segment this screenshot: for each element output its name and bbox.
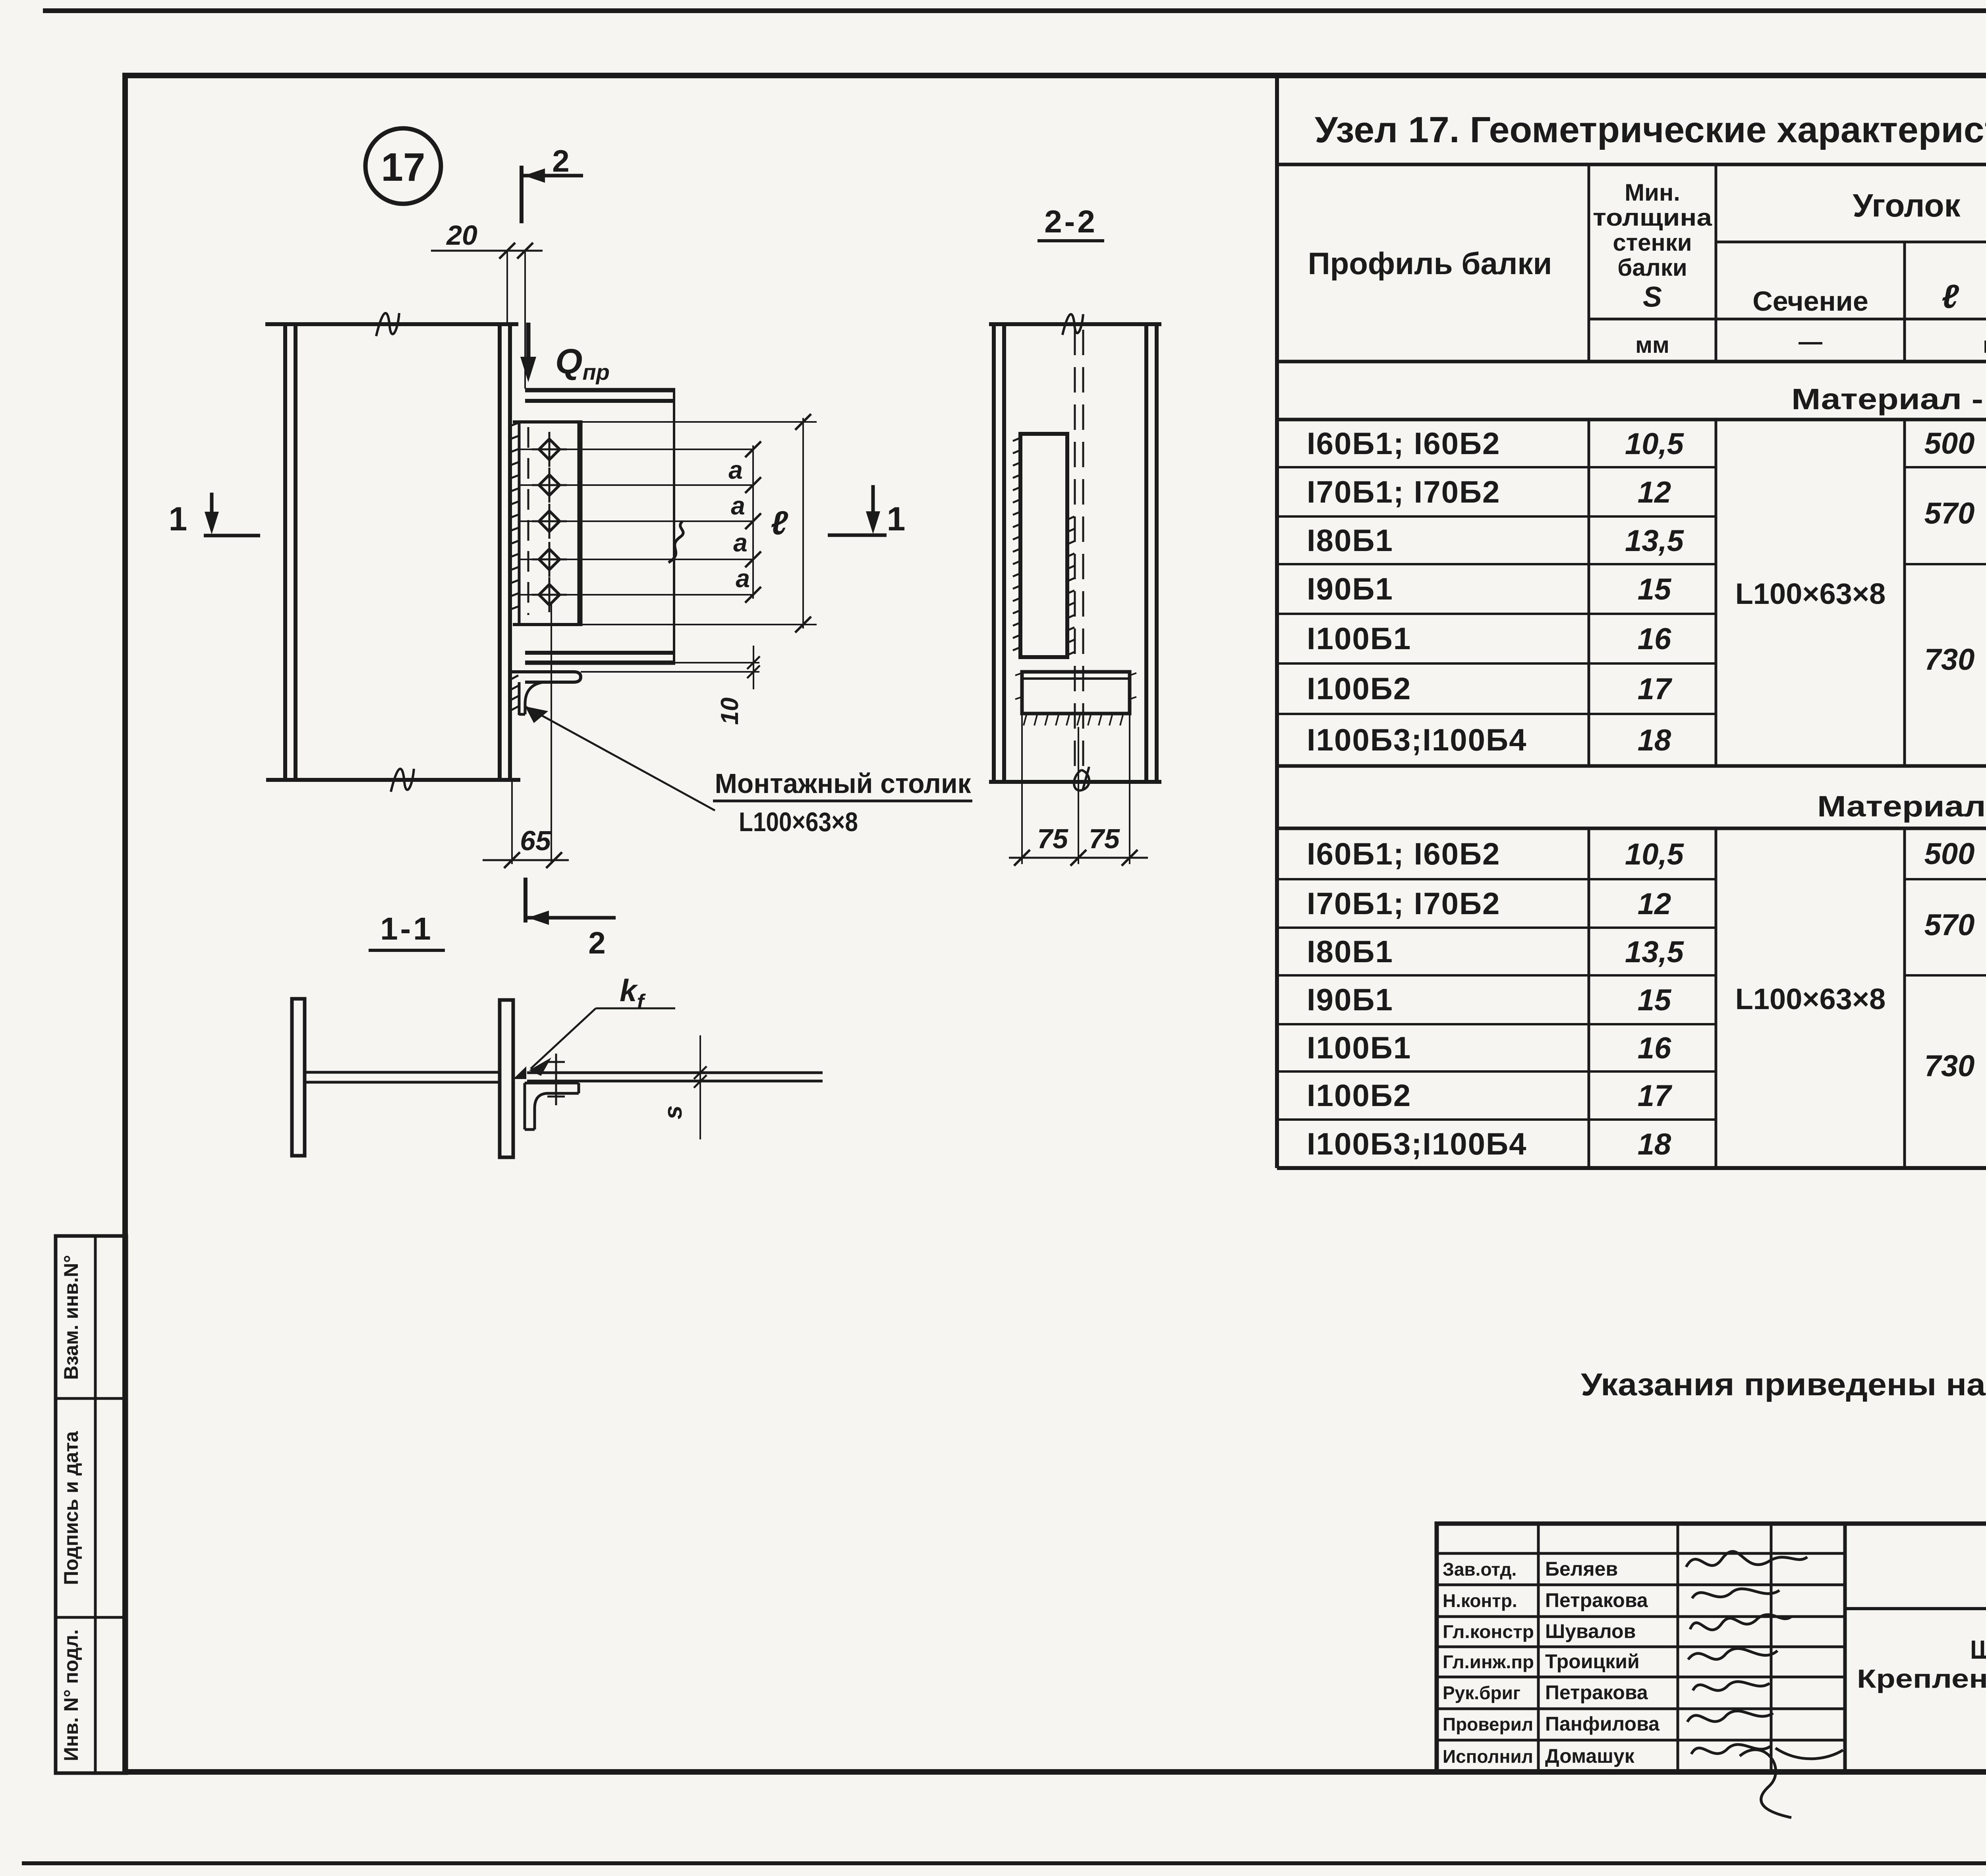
- node marker circle 17: [365, 128, 441, 204]
- svg-text:Петракова: Петракова: [1545, 1589, 1648, 1611]
- label Vzam inv N: [60, 1255, 82, 1380]
- svg-text:Мин.: Мин.: [1625, 179, 1680, 206]
- svg-text:500: 500: [1924, 837, 1975, 871]
- svg-text:Материал - сталь ВСт3: Материал - сталь ВСт3: [1791, 383, 1986, 416]
- beam bottom flange: [525, 653, 675, 663]
- view title 2-2: [1037, 204, 1104, 241]
- bolt B3: [532, 504, 567, 539]
- dimension a labels: [728, 456, 750, 593]
- svg-text:12: 12: [1638, 887, 1671, 921]
- svg-text:стенки: стенки: [1613, 229, 1692, 256]
- label kf with leader: [529, 973, 675, 1076]
- dimension 75 75: [1009, 714, 1148, 866]
- 1-1 angle cleat section: [525, 1083, 579, 1129]
- svg-text:1-1: 1-1: [380, 911, 433, 946]
- svg-text:I60Б1; I60Б2: I60Б1; I60Б2: [1307, 426, 1500, 461]
- column left flange lines: [285, 324, 296, 780]
- 2-2 seat weld comb: [1015, 673, 1136, 725]
- svg-text:Уголок: Уголок: [1853, 188, 1961, 224]
- header Sechenie: [1752, 286, 1868, 317]
- weld hatch on column face: [510, 423, 519, 609]
- 1-1 column left flange: [292, 999, 305, 1156]
- svg-text:Исполнил: Исполнил: [1443, 1746, 1533, 1767]
- 1-1 beam web: [527, 1073, 823, 1081]
- label Inv N podl: [60, 1629, 82, 1761]
- table left border: [1275, 75, 1279, 1168]
- section1 section cell L100x63x8: [1735, 577, 1886, 610]
- label Podpis i data: [60, 1431, 82, 1585]
- svg-text:L100×63×8: L100×63×8: [739, 807, 858, 837]
- leader and label Montazhny stolik: [525, 706, 972, 837]
- svg-text:570: 570: [1924, 908, 1975, 942]
- svg-text:15: 15: [1638, 983, 1672, 1017]
- svg-text:I100Б2: I100Б2: [1307, 671, 1411, 706]
- section2 l values: [1924, 837, 1975, 1083]
- svg-text:65: 65: [520, 825, 551, 856]
- svg-text:Проверил: Проверил: [1443, 1714, 1533, 1735]
- svg-text:15: 15: [1638, 572, 1672, 606]
- svg-text:Зав.отд.: Зав.отд.: [1443, 1559, 1517, 1580]
- signature names: [1545, 1558, 1660, 1767]
- left margin stamp table: [56, 1236, 126, 1773]
- svg-text:17: 17: [381, 145, 425, 190]
- svg-text:Троицкий: Троицкий: [1545, 1650, 1640, 1673]
- svg-text:балки: балки: [1617, 254, 1687, 281]
- svg-text:730: 730: [1924, 643, 1975, 677]
- svg-text:I90Б1: I90Б1: [1307, 982, 1393, 1017]
- svg-text:Домашук: Домашук: [1545, 1745, 1635, 1767]
- svg-text:17: 17: [1638, 1079, 1673, 1113]
- svg-text:Крепление балок к колоннам: Крепление балок к колоннам: [1857, 1664, 1986, 1693]
- weld hatch seat: [511, 675, 518, 710]
- svg-text:мм: мм: [1635, 332, 1669, 358]
- 2-2 column left flange: [994, 324, 1004, 782]
- svg-text:Подпись и дата: Подпись и дата: [60, 1431, 82, 1585]
- column flange plan: bottom cap: [266, 769, 520, 792]
- 2-2 weld hatch left: [1013, 438, 1020, 650]
- svg-text:Шувалов: Шувалов: [1545, 1620, 1636, 1642]
- dimension s (web thickness): [659, 1035, 707, 1139]
- bolt B4: [532, 542, 567, 577]
- svg-text:Инв. N° подл.: Инв. N° подл.: [60, 1629, 82, 1761]
- svg-text:16: 16: [1638, 622, 1671, 656]
- svg-text:мм: мм: [1983, 332, 1986, 358]
- svg-text:17: 17: [1638, 672, 1673, 706]
- svg-text:I70Б1; I70Б2: I70Б1; I70Б2: [1307, 886, 1500, 921]
- svg-text:570: 570: [1924, 497, 1975, 530]
- 2-2 seat plate: [1022, 672, 1130, 714]
- dimension 20: [431, 220, 543, 389]
- svg-text:a: a: [728, 456, 743, 484]
- title block outer: [1437, 1524, 1986, 1772]
- 2-2 column bottom cap: [989, 767, 1161, 791]
- section marker 2 bottom: [525, 878, 616, 960]
- view title 1-1: [369, 911, 445, 950]
- svg-text:I100Б1: I100Б1: [1307, 621, 1411, 656]
- drawing title lines: [1857, 1635, 1986, 1757]
- 2-2 centerline dashed: [1075, 330, 1083, 771]
- 1-1 column web: [305, 1072, 500, 1082]
- section 2 grid: [1277, 828, 1986, 1168]
- signature table grid: [1437, 1524, 1845, 1772]
- svg-text:Материал - сталь НЛ: Материал - сталь НЛ: [1817, 790, 1986, 823]
- svg-text:18: 18: [1638, 1128, 1671, 1161]
- svg-text:s: s: [659, 1105, 687, 1120]
- svg-text:Беляев: Беляев: [1545, 1558, 1618, 1580]
- svg-text:I100Б3;I100Б4: I100Б3;I100Б4: [1307, 722, 1527, 757]
- svg-text:Взам. инв.N°: Взам. инв.N°: [60, 1255, 82, 1380]
- section 1 grid: [1277, 420, 1986, 766]
- svg-text:Петракова: Петракова: [1545, 1681, 1648, 1704]
- svg-text:10,5: 10,5: [1625, 837, 1685, 871]
- svg-text:I100Б3;I100Б4: I100Б3;I100Б4: [1307, 1126, 1527, 1161]
- 1-1 column right flange: [500, 1000, 513, 1157]
- svg-text:2: 2: [552, 143, 569, 178]
- force arrow Qpr: [520, 323, 610, 385]
- scanner top edge line: [43, 8, 1986, 13]
- svg-text:18: 18: [1638, 723, 1671, 757]
- svg-text:730: 730: [1924, 1049, 1975, 1083]
- scanner bottom edge line: [22, 1861, 1986, 1865]
- angle cleat plate (plan): [513, 420, 582, 626]
- svg-text:75: 75: [1037, 823, 1068, 854]
- column right flange lines: [500, 324, 510, 780]
- dimension 65: [483, 782, 569, 868]
- section1 S column: [1625, 427, 1685, 757]
- svg-text:Указания приведены на докум: Указания приведены на докум. 11 КМ: [1581, 1367, 1986, 1402]
- svg-text:Рук.бриг: Рук.бриг: [1443, 1683, 1520, 1703]
- svg-text:Узел 17. Геометрические характ: Узел 17. Геометрические характеристики и…: [1315, 110, 1986, 150]
- bolt B2: [532, 468, 567, 503]
- svg-text:I90Б1: I90Б1: [1307, 571, 1393, 606]
- svg-text:ℓ: ℓ: [771, 504, 788, 542]
- svg-text:Шарнирные узлы.: Шарнирные узлы.: [1970, 1635, 1986, 1664]
- svg-text:13,5: 13,5: [1625, 524, 1685, 558]
- svg-text:10,5: 10,5: [1625, 427, 1685, 461]
- svg-text:75: 75: [1089, 823, 1120, 854]
- svg-text:Гл.констр: Гл.констр: [1443, 1621, 1534, 1642]
- bolt B1: [532, 432, 567, 467]
- bolt B5: [532, 577, 567, 612]
- header Ugolok: [1853, 188, 1961, 224]
- 1-1 bolt centerline: [547, 1054, 565, 1105]
- svg-text:a: a: [733, 528, 748, 557]
- bolt axis extension line: [551, 604, 552, 864]
- section2 section cell L100x63x8: [1735, 982, 1886, 1015]
- section2 profile column: [1307, 836, 1527, 1161]
- svg-text:Гл.инж.пр: Гл.инж.пр: [1443, 1652, 1534, 1672]
- column flange plan: top cap: [265, 313, 518, 336]
- svg-text:1: 1: [169, 500, 187, 538]
- beam web cut line with break mark: [668, 390, 683, 663]
- section2 S column: [1625, 837, 1685, 1161]
- svg-text:L100×63×8: L100×63×8: [1735, 982, 1886, 1015]
- header Min tolschina stenki balki S: [1593, 179, 1712, 313]
- 2-2 column right flange: [1146, 324, 1157, 782]
- hidden edge dashed line: [527, 427, 529, 615]
- section marker 1 left: [169, 493, 260, 538]
- signature roles: [1443, 1559, 1534, 1767]
- units row: [1635, 328, 1986, 358]
- svg-text:Профиль балки: Профиль балки: [1308, 246, 1552, 281]
- svg-text:—: —: [1799, 328, 1822, 355]
- table title: [1315, 110, 1986, 150]
- svg-text:I100Б1: I100Б1: [1307, 1030, 1411, 1065]
- svg-text:I70Б1; I70Б2: I70Б1; I70Б2: [1307, 474, 1500, 509]
- svg-text:L100×63×8: L100×63×8: [1735, 577, 1886, 610]
- band Material VSt3: [1277, 383, 1986, 420]
- svg-text:12: 12: [1638, 476, 1671, 509]
- dimension l (angle length): [582, 414, 817, 632]
- table header grid: [1277, 164, 1986, 362]
- svg-text:I100Б2: I100Б2: [1307, 1078, 1411, 1113]
- svg-text:16: 16: [1638, 1031, 1671, 1065]
- table bottom line: [1277, 1166, 1986, 1170]
- svg-text:ℓ: ℓ: [1942, 278, 1959, 315]
- svg-text:20: 20: [446, 220, 477, 251]
- svg-text:I80Б1: I80Б1: [1307, 934, 1393, 969]
- svg-text:2: 2: [588, 925, 605, 960]
- 2-2 column top cap: [989, 314, 1161, 335]
- title block inner lines: [1845, 1609, 1986, 1772]
- table top line: [1277, 163, 1986, 166]
- header Profil balki: [1308, 246, 1552, 281]
- section marker 1 right: [828, 485, 905, 538]
- svg-text:a: a: [731, 491, 745, 520]
- beam top flange: [525, 390, 675, 401]
- section1 profile column: [1307, 426, 1527, 757]
- svg-text:500: 500: [1924, 427, 1975, 460]
- signatures: [1686, 1551, 1843, 1818]
- band Material NL: [1277, 766, 1986, 828]
- 2-2 weld hatch right: [1067, 516, 1074, 655]
- svg-text:Н.контр.: Н.контр.: [1443, 1590, 1517, 1611]
- svg-text:13,5: 13,5: [1625, 935, 1685, 969]
- section1 l values: [1924, 427, 1975, 677]
- svg-text:S: S: [1643, 281, 1662, 313]
- svg-text:1: 1: [887, 500, 906, 538]
- dimension 10: [581, 646, 760, 725]
- svg-text:I80Б1: I80Б1: [1307, 523, 1393, 558]
- svg-text:Монтажный столик: Монтажный столик: [715, 768, 972, 799]
- svg-text:I60Б1; I60Б2: I60Б1; I60Б2: [1307, 836, 1500, 871]
- section marker 2 top: [522, 143, 583, 223]
- svg-text:2-2: 2-2: [1044, 204, 1097, 239]
- 1-1 weld kf fillet: [513, 1066, 526, 1079]
- mounting seat angle (plan): [510, 672, 581, 715]
- svg-text:Сечение: Сечение: [1752, 286, 1868, 317]
- bolt gauge lines: [519, 449, 753, 595]
- svg-text:Панфилова: Панфилова: [1545, 1713, 1660, 1735]
- note Ukazaniya: [1581, 1367, 1986, 1402]
- header l: [1942, 278, 1959, 315]
- dimension a chain line: [745, 441, 761, 603]
- svg-text:10: 10: [716, 698, 744, 725]
- 2-2 angle cleat: [1020, 434, 1067, 657]
- svg-text:a: a: [736, 564, 750, 593]
- svg-text:толщина: толщина: [1593, 204, 1712, 231]
